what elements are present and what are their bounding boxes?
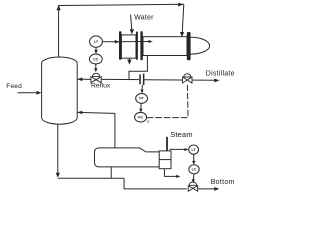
svg-text:Feed: Feed	[6, 83, 22, 90]
svg-text:FC: FC	[138, 116, 143, 120]
svg-text:Distillate: Distillate	[206, 70, 235, 77]
svg-text:CC: CC	[93, 57, 99, 61]
svg-text:Bottom: Bottom	[211, 179, 235, 186]
svg-text:Water: Water	[134, 14, 154, 21]
svg-text:Steam: Steam	[170, 130, 192, 139]
svg-text:LC: LC	[192, 168, 197, 172]
svg-text:Reflux: Reflux	[91, 83, 111, 90]
